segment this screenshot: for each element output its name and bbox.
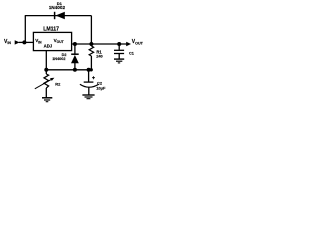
- svg-text:LM117: LM117: [43, 27, 59, 33]
- wire: R2 wiper arrow: [35, 79, 52, 89]
- node: D1/R1 junction on output rail: [89, 42, 93, 46]
- node: C1 junction on output rail: [117, 42, 121, 46]
- diode D1 1N4002 (horizontal, pointing left): [49, 1, 66, 19]
- capacitor C1: [114, 50, 134, 55]
- svg-text:C1: C1: [129, 51, 134, 55]
- svg-text:10µF: 10µF: [96, 86, 106, 91]
- svg-text:R2: R2: [55, 82, 61, 87]
- wire: output rail: [72, 43, 127, 45]
- ground below R2: [42, 98, 52, 102]
- wire: left riser from input junction up to D1 rail: [24, 16, 26, 43]
- node: ADJ/R2 junction: [44, 68, 48, 72]
- node: C2 junction on ADJ rail: [87, 68, 91, 72]
- wire: C1 leads: [118, 44, 120, 59]
- wire: VOUT arrowhead: [126, 42, 131, 46]
- svg-text:240: 240: [96, 54, 103, 59]
- resistor R2 (rheostat): [35, 74, 61, 89]
- diode D2 1N4002 (vertical, pointing up): [52, 53, 79, 63]
- node: D2 bottom junction on ADJ rail: [73, 68, 77, 72]
- wire: C2 leads: [88, 70, 90, 95]
- node: R1 corner junction on ADJ rail: [90, 68, 93, 71]
- node: D2 top junction on output rail: [73, 42, 77, 46]
- wire: VIN arrowhead: [15, 40, 20, 44]
- wire: D2 branch vertical: [74, 44, 76, 70]
- node: VIN input junction: [22, 40, 26, 44]
- svg-text:1N4002: 1N4002: [49, 5, 66, 10]
- svg-text:1N4002: 1N4002: [52, 57, 65, 61]
- resistor R1 240: [89, 46, 103, 59]
- wire: R2 leads: [45, 70, 47, 98]
- ground below C1: [114, 59, 124, 63]
- wire: ADJ rail: [46, 69, 91, 71]
- capacitor C2 10uF (polarized): [80, 76, 106, 90]
- op-amp U1 LM117 regulator box: [33, 27, 71, 51]
- ground below C2: [82, 95, 94, 99]
- wire: ADJ pin down from regulator: [45, 51, 47, 70]
- wire: input wire from VIN arrow to regulator: [19, 41, 34, 43]
- wire: R1 leads: [90, 44, 92, 70]
- svg-text:ADJ: ADJ: [44, 43, 53, 48]
- wire: right drop from D1 rail down to output rail: [90, 16, 92, 44]
- wire: top rail (D1 loop): [25, 15, 92, 17]
